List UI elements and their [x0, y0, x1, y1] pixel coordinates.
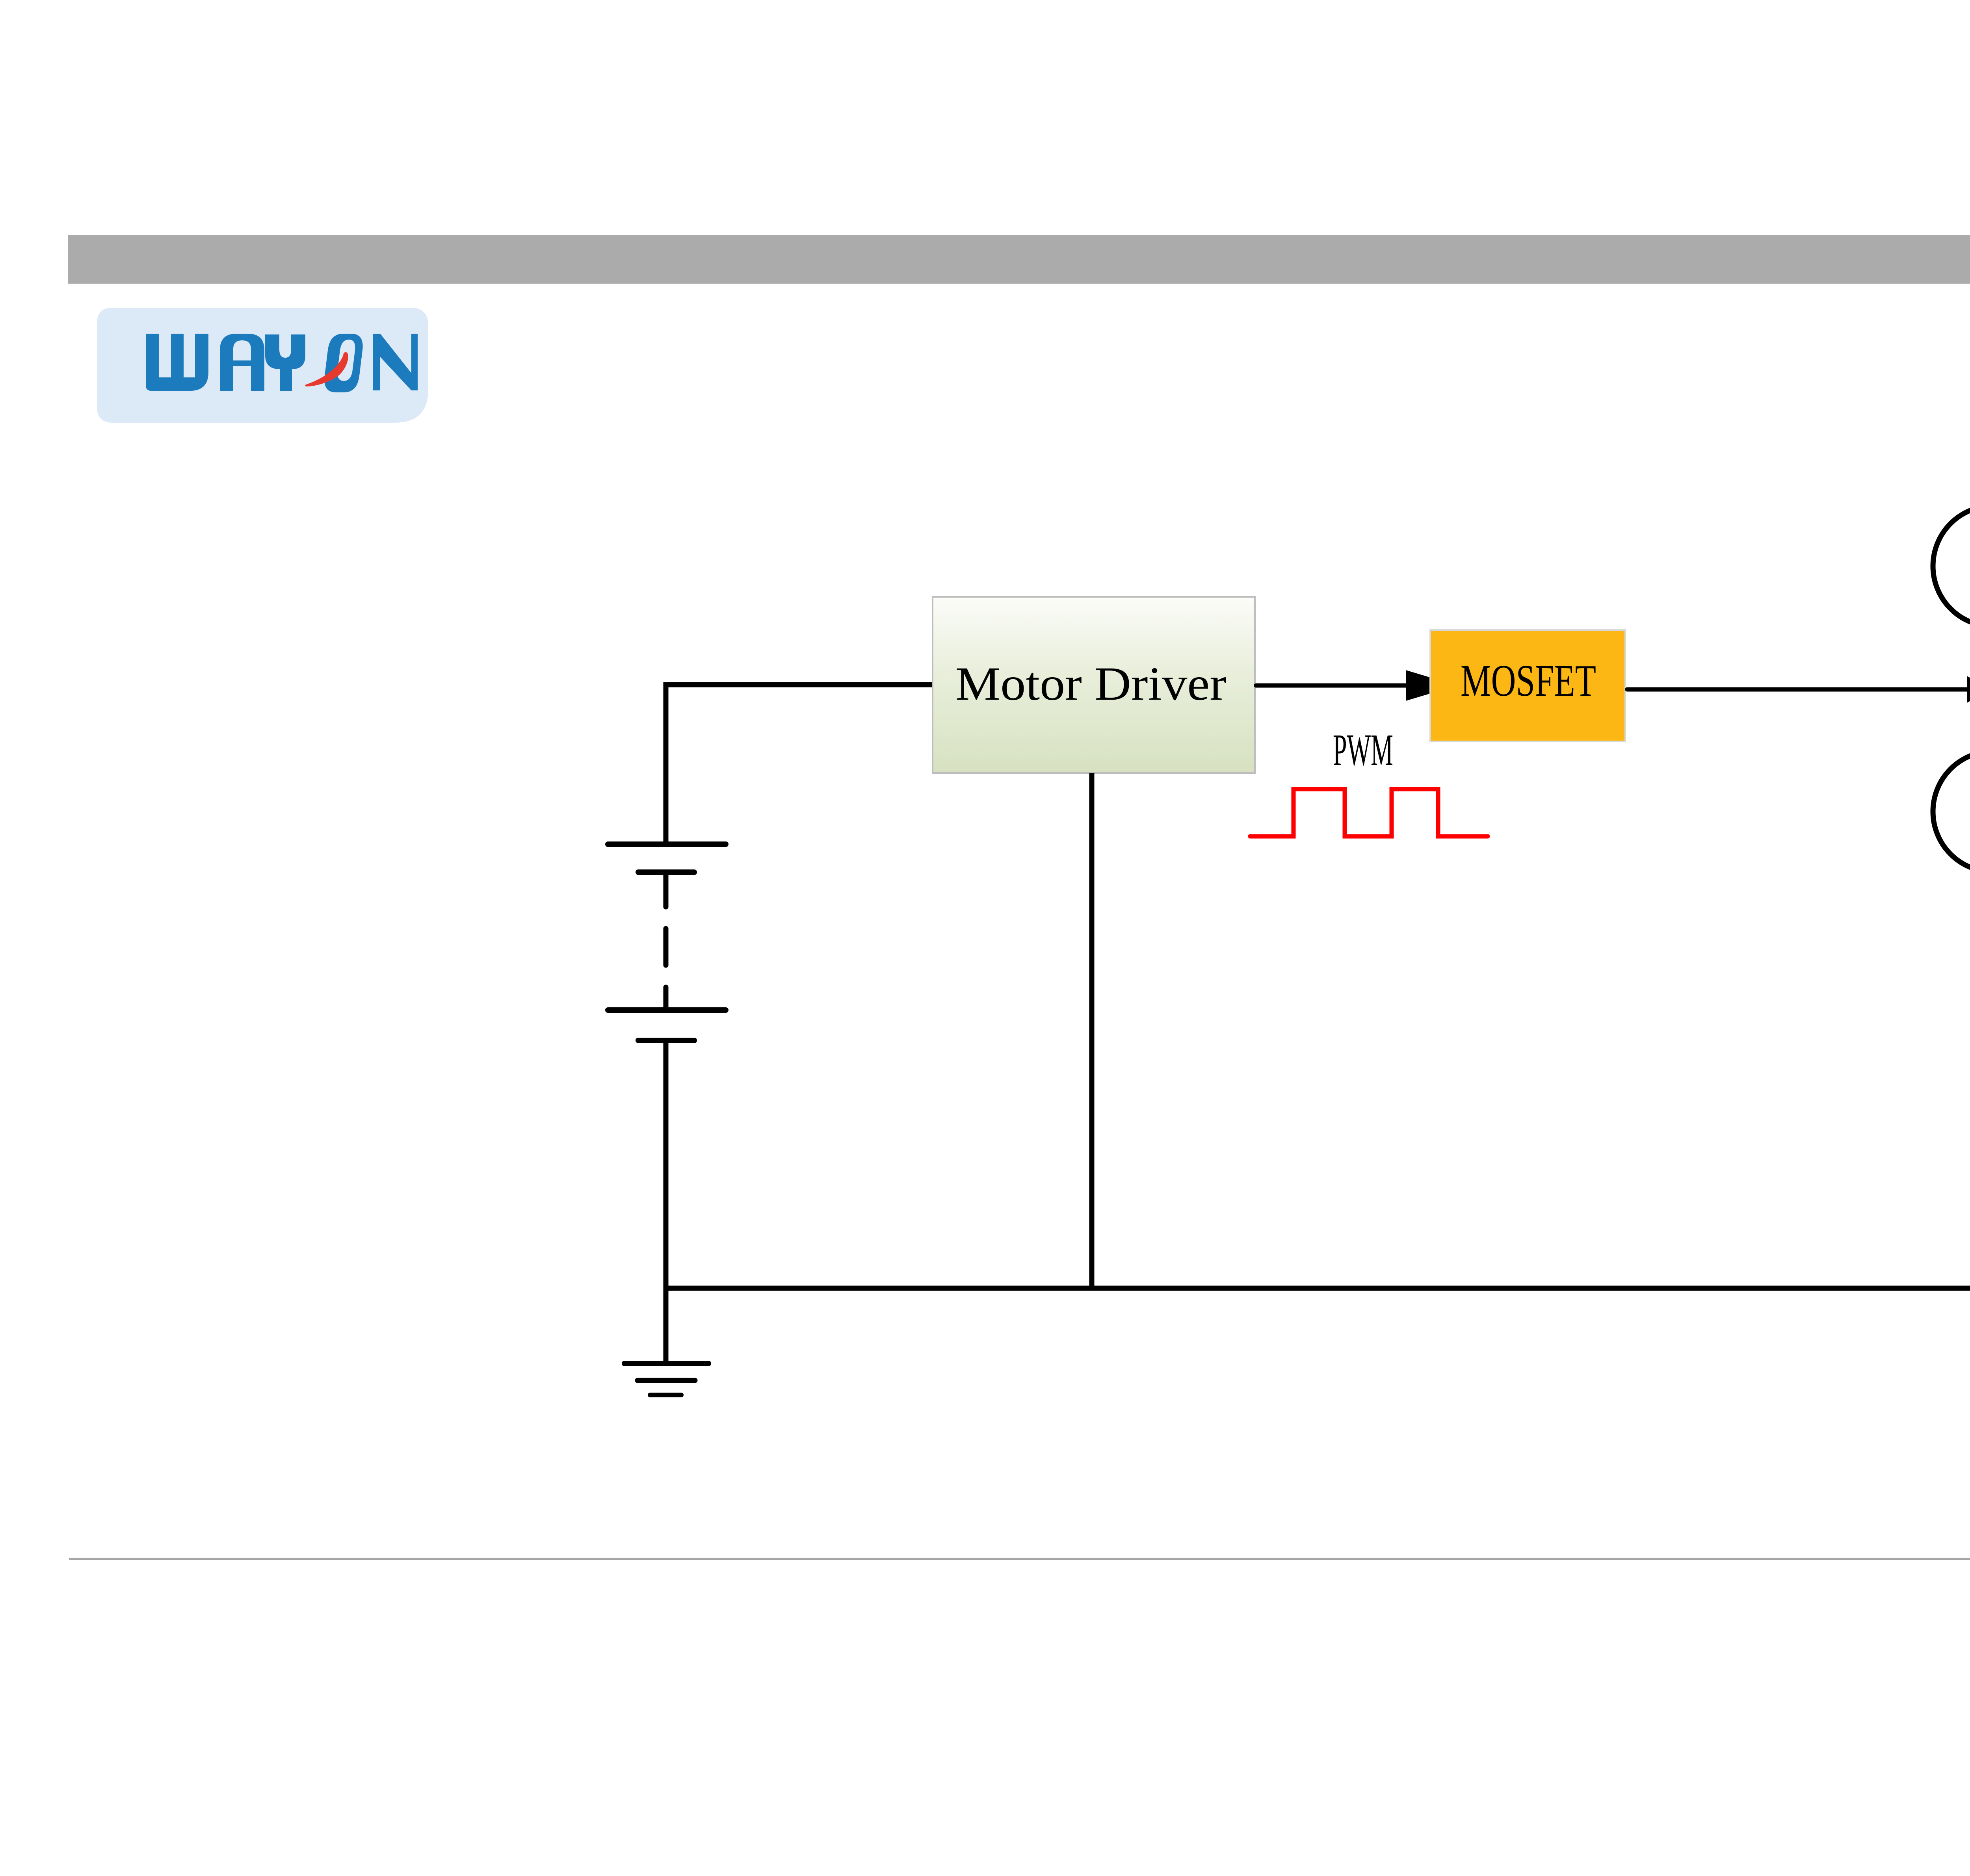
svg-text:PWM: PWM: [1333, 725, 1393, 775]
wire: Motor Driver bottom to return wire: [1089, 773, 1095, 1288]
svg-text:Motor Driver: Motor Driver: [955, 658, 1227, 710]
ground symbol: [624, 1363, 708, 1395]
footer rule: [69, 1558, 1970, 1560]
wire: MOSFET to motor node with arrow: [1627, 676, 1970, 703]
arrow: Motor Driver to MOSFET: [1256, 670, 1457, 701]
bottom return wire: [666, 1286, 1970, 1291]
motor M1 (top): [1933, 506, 1970, 626]
wire stub above cell 2: [663, 987, 669, 1010]
wire: battery top to Motor Driver: [666, 685, 933, 845]
dashed cell separator: [663, 929, 669, 965]
PWM waveform: [1250, 789, 1488, 836]
Wayon logo badge (header): [97, 308, 428, 423]
battery BT1 cell 1 long plate: [608, 841, 726, 847]
Wayon logo letters (header): [146, 334, 418, 392]
svg-text:MOSFET: MOSFET: [1461, 656, 1596, 706]
battery BT1 cell 2 short plate: [638, 1038, 694, 1043]
battery BT1 cell 2 long plate: [608, 1007, 726, 1013]
motor M2 (bottom): [1933, 751, 1970, 872]
MOSFET box Q1: [1430, 630, 1625, 741]
Motor Driver box U1: [933, 597, 1255, 773]
wire stub below cell 1: [663, 872, 669, 907]
wire: battery bottom to ground node: [663, 1040, 669, 1361]
header gray bar: [68, 235, 1970, 284]
battery BT1 cell 1 short plate: [638, 869, 694, 875]
